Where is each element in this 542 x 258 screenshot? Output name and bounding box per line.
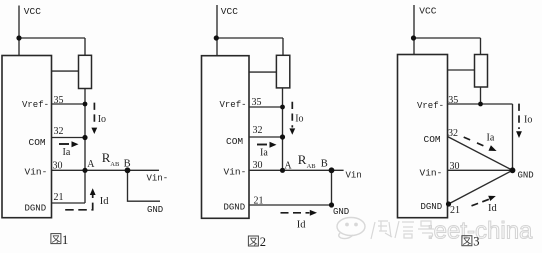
svg-text:R: R [298,152,307,167]
svg-text:A: A [284,161,292,172]
svg-text:32: 32 [253,125,263,136]
svg-text:B: B [124,158,131,169]
svg-text:30: 30 [450,161,460,172]
svg-text:Vin-: Vin- [147,174,169,184]
svg-text:Ia: Ia [487,133,495,144]
svg-text:Vin-: Vin- [25,167,48,178]
svg-text:21: 21 [54,192,64,203]
svg-text:Ia: Ia [260,147,268,158]
svg-text:35: 35 [54,95,64,106]
svg-text:AB: AB [307,163,317,170]
svg-text:GND: GND [333,207,349,217]
svg-text:Id: Id [297,219,306,230]
svg-text:32: 32 [54,126,64,137]
svg-text:Vin-: Vin- [420,168,443,179]
svg-text:DGND: DGND [224,203,246,213]
svg-text::eet-china: :eet-china [427,218,533,245]
svg-text:DGND: DGND [421,202,443,212]
svg-text:Io: Io [295,114,303,125]
svg-text:A: A [87,159,95,170]
svg-text:30: 30 [53,161,63,172]
svg-text:VCC: VCC [419,6,436,17]
svg-text:Io: Io [98,114,106,125]
svg-text:Vin: Vin [346,171,362,181]
svg-text:21: 21 [450,205,460,216]
svg-text:COM: COM [424,134,441,145]
svg-text:21: 21 [254,196,264,207]
svg-text:30: 30 [253,160,263,171]
svg-text:Io: Io [524,115,532,126]
svg-text:Vref-: Vref- [220,100,247,110]
svg-text:35: 35 [448,95,458,106]
svg-text:VCC: VCC [24,6,41,17]
svg-text:DGND: DGND [25,204,47,214]
svg-text:3: 3 [473,235,479,249]
svg-text:Id: Id [488,203,497,214]
svg-text:32: 32 [448,128,458,139]
svg-text:Id: Id [100,196,109,207]
svg-text:35: 35 [252,97,262,108]
svg-text:GND: GND [518,171,534,181]
svg-text:Vref-: Vref- [22,100,49,110]
svg-text:2: 2 [260,235,266,249]
svg-text:Vref-: Vref- [417,101,444,111]
svg-text:VCC: VCC [221,6,238,17]
svg-text:COM: COM [29,137,46,148]
svg-text:B: B [321,158,328,169]
svg-text:Ia: Ia [63,147,71,158]
svg-text:GND: GND [147,205,163,215]
svg-text:1: 1 [62,233,68,247]
svg-text:Vin-: Vin- [224,167,247,178]
svg-text:AB: AB [110,161,120,168]
svg-text:COM: COM [226,136,243,147]
